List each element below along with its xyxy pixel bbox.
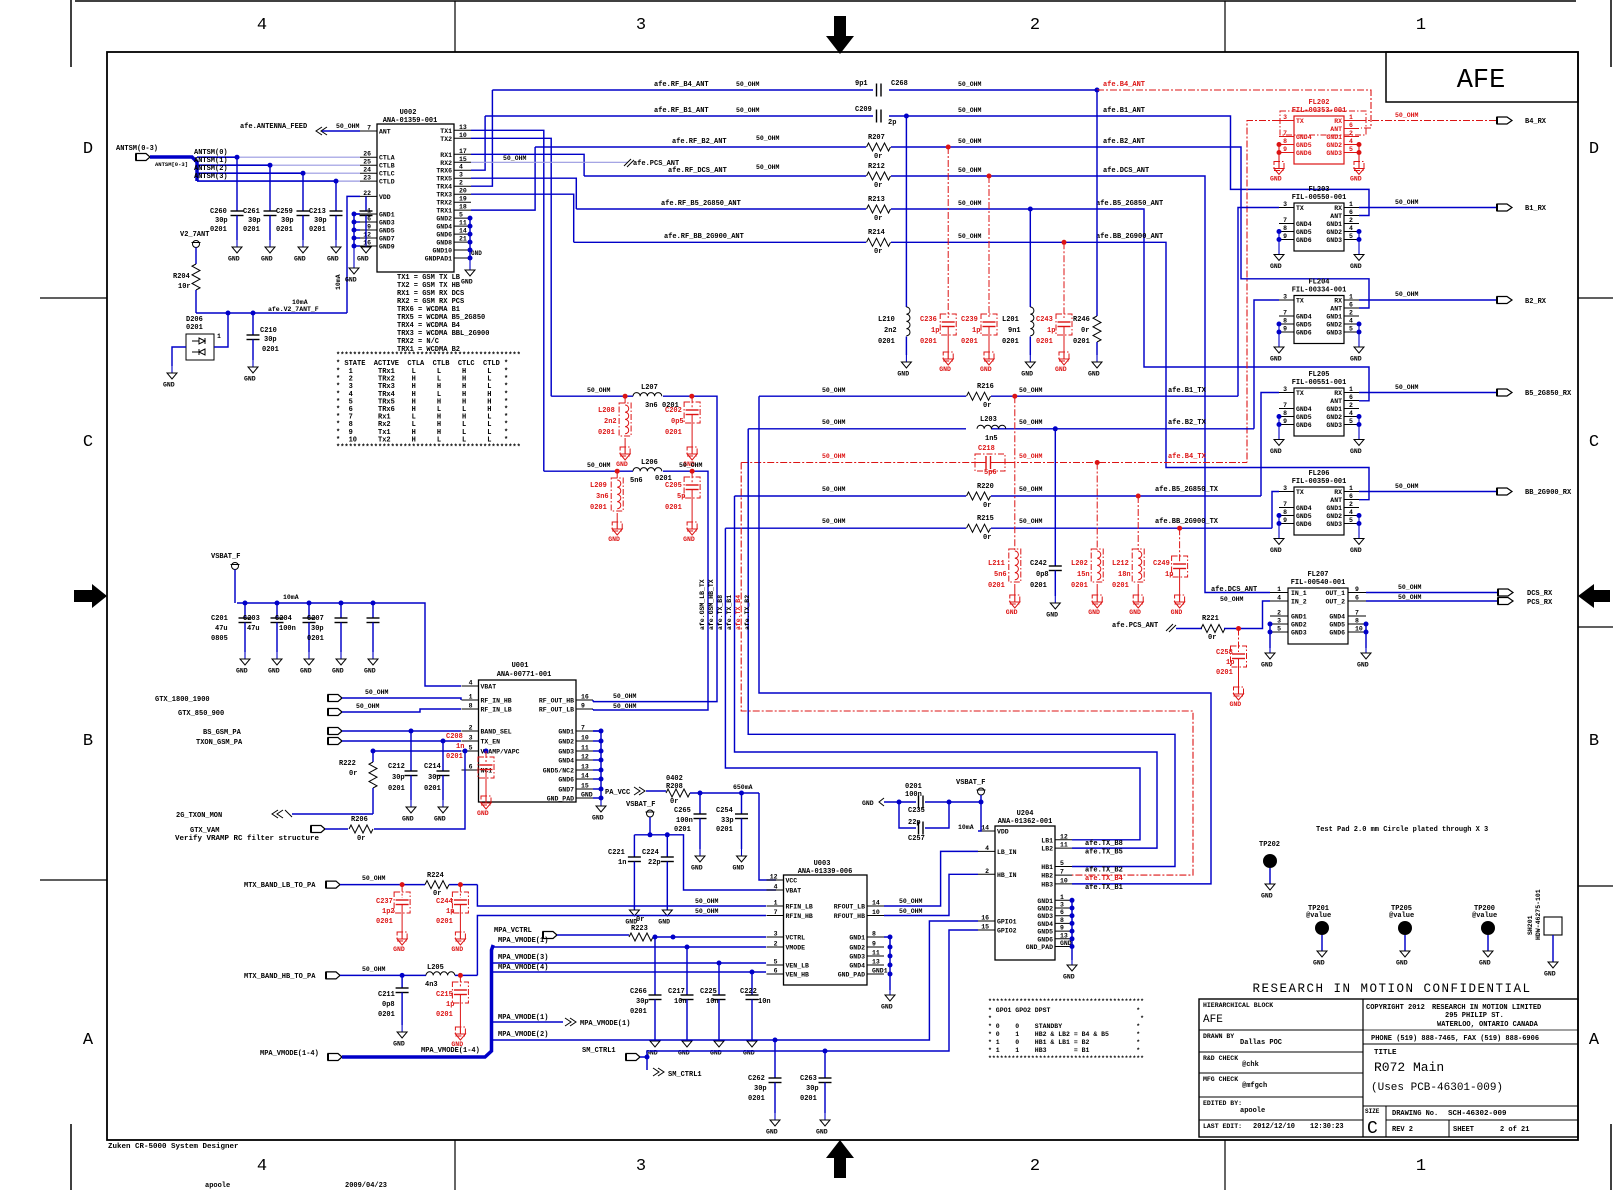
wire TRX5 to B5 row (471, 178, 576, 209)
svg-text:22p: 22p (648, 859, 661, 867)
svg-text:15: 15 (981, 924, 989, 931)
svg-text:CTLC: CTLC (379, 171, 395, 178)
svg-text:50_OHM: 50_OHM (1220, 596, 1244, 603)
svg-text:4: 4 (774, 884, 778, 891)
svg-text:SIZE: SIZE (1365, 1108, 1380, 1115)
svg-text:GND6: GND6 (1296, 422, 1312, 429)
svg-text:3: 3 (1283, 114, 1287, 121)
capacitor C249 (1153, 528, 1188, 616)
svg-text:0201: 0201 (800, 1095, 817, 1103)
svg-text:30p: 30p (314, 217, 327, 225)
svg-text:ANT: ANT (1330, 497, 1342, 504)
svg-text:******************************: ****************************************… (336, 444, 521, 452)
svg-text:1: 1 (1416, 1157, 1426, 1176)
svg-text:SM_CTRL1: SM_CTRL1 (668, 1071, 702, 1079)
svg-text:0201: 0201 (920, 338, 937, 346)
wire ANTSM(3) (194, 173, 360, 184)
svg-text:8: 8 (1283, 318, 1287, 325)
svg-text:ANTSM(0): ANTSM(0) (194, 149, 228, 157)
svg-text:L210: L210 (878, 316, 895, 324)
svg-text:3: 3 (774, 931, 778, 938)
FL204 grounds (1270, 322, 1364, 363)
capacitor C224 (642, 835, 674, 926)
svg-text:RESEARCH IN MOTION CONFIDENTIA: RESEARCH IN MOTION CONFIDENTIAL (1252, 982, 1531, 996)
svg-text:FIL-00359-001: FIL-00359-001 (1292, 478, 1347, 486)
svg-text:GND: GND (393, 1041, 405, 1048)
inductor L206 (630, 459, 672, 485)
svg-text:OUT_2: OUT_2 (1325, 599, 1345, 606)
svg-text:afe.GSM_LB_TX: afe.GSM_LB_TX (699, 579, 706, 630)
wire afe.B2_TX row (748, 419, 1254, 431)
svg-text:GND4: GND4 (558, 758, 574, 765)
svg-text:ANA-01362-001: ANA-01362-001 (998, 818, 1053, 826)
svg-text:30p: 30p (281, 217, 294, 225)
svg-text:5: 5 (1349, 517, 1353, 524)
svg-text:BAND_SEL: BAND_SEL (481, 729, 512, 736)
inductor L209 (590, 471, 623, 543)
terminal BS_GSM_PA (203, 728, 461, 738)
svg-text:20: 20 (459, 188, 467, 195)
svg-text:C217: C217 (668, 988, 685, 996)
svg-text:13: 13 (581, 764, 589, 771)
inductor L211 (988, 396, 1021, 616)
svg-text:C: C (83, 433, 93, 452)
svg-text:TXON_GSM_PA: TXON_GSM_PA (196, 739, 243, 747)
svg-text:5p6: 5p6 (984, 469, 997, 477)
svg-text:R214: R214 (868, 229, 885, 237)
svg-text:2 of 21: 2 of 21 (1500, 1126, 1529, 1134)
inductor L205 (425, 964, 477, 989)
svg-text:afe.RF_B1_ANT: afe.RF_B1_ANT (654, 107, 709, 115)
svg-text:L208: L208 (598, 407, 615, 415)
svg-text:VEN_LB: VEN_LB (786, 963, 810, 970)
svg-text:2G_TXON_MON: 2G_TXON_MON (176, 812, 222, 820)
svg-text:RX1: RX1 (440, 152, 452, 159)
wire ANTSM(0) (194, 149, 360, 160)
svg-text:C258: C258 (1216, 649, 1233, 657)
svg-text:3n6: 3n6 (596, 493, 609, 501)
svg-text:R221: R221 (1202, 615, 1219, 623)
svg-text:0201: 0201 (905, 783, 922, 791)
svg-text:9: 9 (1283, 418, 1287, 425)
svg-text:GND4: GND4 (1296, 221, 1312, 228)
svg-text:C236: C236 (920, 316, 937, 324)
svg-text:GND7: GND7 (558, 787, 574, 794)
svg-text:ANTSM(3): ANTSM(3) (194, 173, 228, 181)
svg-text:@mfgch: @mfgch (1242, 1082, 1267, 1090)
svg-text:10: 10 (872, 909, 880, 916)
svg-text:GND: GND (1129, 609, 1141, 616)
svg-text:0201: 0201 (436, 918, 453, 926)
inductor L208 (598, 396, 631, 468)
svg-text:GND: GND (434, 816, 446, 823)
svg-text:50_OHM: 50_OHM (958, 200, 982, 207)
svg-text:TRX4 = WCDMA B4: TRX4 = WCDMA B4 (397, 322, 460, 330)
svg-text:2012/12/10: 2012/12/10 (1253, 1123, 1295, 1131)
svg-text:0805: 0805 (211, 635, 228, 643)
svg-text:50_OHM: 50_OHM (822, 387, 846, 394)
filter FL205 (1279, 371, 1359, 436)
svg-text:RF_OUT_HB: RF_OUT_HB (539, 698, 574, 705)
svg-text:0201: 0201 (378, 1011, 395, 1019)
svg-text:ANTSM[0-3]: ANTSM[0-3] (155, 161, 188, 168)
svg-text:GND3: GND3 (1291, 630, 1307, 637)
svg-text:DRAWN BY: DRAWN BY (1203, 1033, 1234, 1040)
svg-text:B: B (83, 732, 93, 751)
svg-text:VBAT: VBAT (481, 684, 497, 691)
svg-text:7: 7 (1060, 869, 1064, 876)
wire MPA_VMODE(3) (492, 954, 767, 966)
svg-text:B5_2G850_RX: B5_2G850_RX (1525, 390, 1572, 398)
svg-text:GND: GND (862, 800, 874, 807)
svg-text:8: 8 (1283, 509, 1287, 516)
svg-text:MPA_VMODE(1-4): MPA_VMODE(1-4) (421, 1047, 480, 1055)
svg-text:GND: GND (1479, 960, 1491, 967)
wire RFOUT_HB to U204 (884, 874, 978, 915)
svg-text:1: 1 (1349, 201, 1353, 208)
svg-text:C254: C254 (716, 807, 733, 815)
svg-text:3: 3 (1283, 294, 1287, 301)
svg-text:GND: GND (1046, 612, 1058, 619)
wire afe.B5_2G850_TX row (735, 486, 1262, 499)
svg-text:******************************: ****************************************… (336, 352, 521, 360)
svg-text:GND1: GND1 (1326, 505, 1342, 512)
svg-text:GND2: GND2 (1326, 142, 1342, 149)
svg-text:9: 9 (1283, 326, 1287, 333)
wire RF_OUT_HB (593, 693, 637, 702)
svg-text:GND: GND (268, 668, 280, 675)
svg-text:GND: GND (939, 366, 951, 373)
svg-text:VBAT: VBAT (786, 888, 802, 895)
svg-text:100n: 100n (676, 817, 693, 825)
svg-text:0201: 0201 (1030, 582, 1047, 590)
svg-text:50_OHM: 50_OHM (822, 518, 846, 525)
svg-text:50_OHM: 50_OHM (958, 233, 982, 240)
svg-text:0201: 0201 (665, 429, 682, 437)
svg-text:GND8: GND8 (436, 240, 452, 247)
svg-text:16: 16 (581, 694, 589, 701)
svg-text:Dallas POC: Dallas POC (1240, 1039, 1282, 1047)
svg-text:1: 1 (1349, 485, 1353, 492)
svg-text:FL206: FL206 (1308, 470, 1329, 478)
FL202 highlight box (1280, 111, 1366, 135)
svg-text:GND2: GND2 (1326, 322, 1342, 329)
svg-text:0r: 0r (874, 182, 882, 190)
capacitor C261 (243, 165, 277, 262)
svg-text:GPIO2: GPIO2 (997, 928, 1017, 935)
svg-text:0201: 0201 (961, 338, 978, 346)
svg-text:13: 13 (459, 124, 467, 131)
svg-text:R222: R222 (339, 760, 356, 768)
svg-text:1p: 1p (1165, 571, 1173, 579)
svg-text:RFOUT_LB: RFOUT_LB (834, 904, 865, 911)
svg-text:0201: 0201 (262, 346, 279, 354)
svg-text:@chk: @chk (1242, 1061, 1259, 1069)
svg-text:50_OHM: 50_OHM (503, 155, 527, 162)
svg-text:18: 18 (459, 204, 467, 211)
svg-text:0201: 0201 (186, 324, 203, 332)
svg-text:50_OHM: 50_OHM (1395, 199, 1419, 206)
svg-text:R212: R212 (868, 163, 885, 171)
svg-text:0r: 0r (1081, 327, 1089, 335)
svg-text:4: 4 (469, 680, 473, 687)
svg-text:0201: 0201 (1216, 669, 1233, 677)
svg-text:TRX5 = WCDMA B5_2G850: TRX5 = WCDMA B5_2G850 (397, 314, 485, 322)
svg-text:0r: 0r (874, 215, 882, 223)
svg-text:30p: 30p (428, 774, 441, 782)
svg-text:GND3: GND3 (1326, 422, 1342, 429)
resistor R208 (666, 775, 759, 806)
svg-text:C208: C208 (446, 733, 463, 741)
svg-text:C201: C201 (211, 615, 228, 623)
svg-text:50_OHM: 50_OHM (899, 908, 923, 915)
title block (1199, 982, 1578, 1139)
inductor L202 (1071, 463, 1103, 617)
resistor R223 (629, 916, 766, 941)
svg-text:MPA_VMODE(3): MPA_VMODE(3) (498, 954, 548, 962)
svg-text:HDW-46275-101: HDW-46275-101 (1535, 889, 1542, 940)
svg-text:afe.DCS_ANT: afe.DCS_ANT (1103, 167, 1149, 175)
svg-text:D: D (83, 140, 93, 159)
svg-text:50_OHM: 50_OHM (613, 703, 637, 710)
svg-text:L202: L202 (1071, 560, 1088, 568)
svg-text:COPYRIGHT 2012: COPYRIGHT 2012 (1366, 1004, 1425, 1012)
svg-text:IN_2: IN_2 (1291, 599, 1307, 606)
capacitor C263 (800, 1051, 832, 1136)
svg-text:0201: 0201 (1071, 582, 1088, 590)
svg-text:HB_IN: HB_IN (997, 872, 1017, 879)
svg-text:TRX2 = N/C: TRX2 = N/C (397, 338, 439, 346)
U002 pin function notes (397, 274, 489, 354)
svg-text:* 0 1 HB2 & LB2 = B4 & B: * 0 1 HB2 & LB2 = B4 & B5 * (988, 1031, 1140, 1038)
inductor L203 (977, 416, 1006, 443)
svg-text:GND1: GND1 (872, 968, 888, 975)
capacitor C204 (275, 603, 316, 675)
svg-text:GND: GND (897, 371, 909, 378)
svg-text:C205: C205 (665, 482, 682, 490)
capacitor C202 (665, 396, 700, 468)
svg-text:L203: L203 (980, 416, 997, 424)
svg-text:4: 4 (1349, 509, 1353, 516)
svg-text:50_OHM: 50_OHM (822, 419, 846, 426)
svg-text:R207: R207 (868, 134, 885, 142)
svg-text:C266: C266 (630, 988, 647, 996)
svg-text:C218: C218 (978, 445, 995, 453)
svg-text:2n2: 2n2 (604, 418, 617, 426)
capacitor C225 (700, 963, 726, 1057)
svg-text:295 PHILIP ST.: 295 PHILIP ST. (1445, 1012, 1504, 1020)
svg-text:B2_RX: B2_RX (1525, 298, 1547, 306)
svg-text:afe.TX_B1: afe.TX_B1 (1085, 884, 1123, 892)
svg-text:GND: GND (1063, 974, 1075, 981)
svg-text:afe.RF_B2_ANT: afe.RF_B2_ANT (672, 138, 727, 146)
svg-text:LB_IN: LB_IN (997, 849, 1017, 856)
svg-text:2: 2 (985, 868, 989, 875)
svg-text:DRAWING No.: DRAWING No. (1392, 1110, 1438, 1118)
wire MPA_VMODE(4) (492, 964, 767, 975)
svg-text:21: 21 (459, 236, 467, 243)
svg-text:0r: 0r (670, 798, 678, 806)
svg-text:C237: C237 (376, 898, 393, 906)
svg-text:afe.TX_B8: afe.TX_B8 (717, 595, 724, 630)
svg-text:0p8: 0p8 (382, 1001, 395, 1009)
svg-text:GND: GND (1270, 263, 1282, 270)
svg-text:MPA_VMODE(2): MPA_VMODE(2) (498, 1031, 548, 1039)
svg-text:50_OHM: 50_OHM (1019, 387, 1043, 394)
svg-text:0r: 0r (1208, 634, 1216, 642)
svg-text:10mA: 10mA (958, 824, 974, 831)
svg-text:TRX4: TRX4 (436, 184, 452, 191)
svg-text:afe.DCS_ANT: afe.DCS_ANT (1211, 586, 1257, 594)
svg-text:C207: C207 (307, 615, 324, 623)
svg-text:50_OHM: 50_OHM (736, 107, 760, 114)
svg-text:GND2: GND2 (558, 739, 574, 746)
svg-text:* STATE ACTIVE CTLA CTLB C: * STATE ACTIVE CTLA CTLB CTLC CTLD * (336, 360, 508, 368)
testpad TP201 (1306, 905, 1331, 967)
svg-text:C: C (1367, 1119, 1378, 1139)
svg-text:afe.RF_DCS_ANT: afe.RF_DCS_ANT (668, 167, 727, 175)
wire afe.B4_ANT red (1097, 81, 1371, 128)
svg-text:50_OHM: 50_OHM (736, 81, 760, 88)
svg-text:0r: 0r (349, 770, 357, 778)
svg-text:6: 6 (1349, 493, 1353, 500)
svg-text:50_OHM: 50_OHM (1395, 112, 1419, 119)
resistor R204 (173, 257, 200, 313)
svg-text:afe.PCS_ANT: afe.PCS_ANT (1112, 622, 1158, 630)
svg-text:GND2: GND2 (1326, 513, 1342, 520)
svg-text:C257: C257 (908, 835, 925, 843)
svg-text:50_OHM: 50_OHM (822, 453, 846, 460)
svg-text:GPIO1: GPIO1 (997, 919, 1017, 926)
svg-text:0201: 0201 (446, 753, 463, 761)
svg-text:GND2: GND2 (1291, 622, 1307, 629)
svg-text:Test Pad 2.0 mm Circle plated: Test Pad 2.0 mm Circle plated through X … (1316, 826, 1488, 834)
svg-text:30p: 30p (392, 774, 405, 782)
svg-text:8: 8 (1060, 917, 1064, 924)
svg-text:47u: 47u (215, 625, 228, 633)
svg-text:Zuken CR-5000 System Designer: Zuken CR-5000 System Designer (108, 1143, 239, 1151)
svg-text:C243: C243 (1036, 316, 1053, 324)
power VSBAT_F 2 (626, 801, 655, 835)
svg-text:RFIN_LB: RFIN_LB (786, 904, 813, 911)
svg-text:50_OHM: 50_OHM (679, 462, 703, 469)
svg-text:30p: 30p (754, 1085, 767, 1093)
svg-text:GND: GND (1261, 662, 1273, 669)
wire B5_2G850_RX (1359, 384, 1572, 398)
svg-text:afe.BB_2G900_TX: afe.BB_2G900_TX (1155, 518, 1219, 526)
svg-text:U003: U003 (814, 860, 831, 868)
svg-text:TRX3 = WCDMA BBL_2G900: TRX3 = WCDMA BBL_2G900 (397, 330, 489, 338)
svg-text:30p: 30p (215, 217, 228, 225)
svg-text:5p: 5p (677, 493, 685, 501)
svg-text:RX2: RX2 (440, 160, 452, 167)
svg-text:23: 23 (363, 175, 371, 182)
svg-text:TX2 = GSM TX HB: TX2 = GSM TX HB (397, 282, 461, 290)
inductor L210 (878, 116, 911, 378)
svg-text:TX1 = GSM TX LB: TX1 = GSM TX LB (397, 274, 461, 282)
svg-text:VDD: VDD (997, 829, 1009, 836)
svg-text:0201: 0201 (1002, 338, 1019, 346)
svg-text:50_OHM: 50_OHM (1019, 453, 1043, 460)
svg-text:MPA_VMODE(1): MPA_VMODE(1) (498, 937, 548, 945)
svg-text:C: C (1589, 433, 1599, 452)
svg-text:RFIN_HB: RFIN_HB (786, 913, 813, 920)
capacitor C-vdd (357, 196, 373, 262)
svg-text:GND: GND (1396, 960, 1408, 967)
svg-text:C202: C202 (665, 407, 682, 415)
svg-text:GND: GND (228, 256, 240, 263)
U002 right ground rail (461, 216, 475, 286)
GSM PA U001 (462, 662, 594, 803)
svg-text:3: 3 (1277, 618, 1281, 625)
svg-text:TRX6: TRX6 (436, 168, 452, 175)
wire B5_TX to FL205 (1261, 393, 1279, 497)
svg-text:2: 2 (1030, 16, 1040, 35)
capacitor C205 (665, 471, 700, 543)
svg-text:0p8: 0p8 (1036, 571, 1049, 579)
svg-text:4: 4 (1349, 225, 1353, 232)
svg-text:afe.B1_TX: afe.B1_TX (1168, 387, 1207, 395)
svg-text:50_OHM: 50_OHM (756, 135, 780, 142)
svg-text:2: 2 (469, 725, 473, 732)
wire TRX3 to BB row (471, 194, 574, 242)
svg-text:GND: GND (766, 1129, 778, 1136)
svg-text:GND: GND (1313, 960, 1325, 967)
svg-text:GND4: GND4 (1296, 505, 1312, 512)
svg-text:1: 1 (1349, 386, 1353, 393)
svg-text:GND: GND (616, 461, 628, 468)
svg-text:GND5: GND5 (1296, 513, 1312, 520)
svg-text:TRX5: TRX5 (436, 176, 452, 183)
svg-text:C203: C203 (243, 615, 260, 623)
wire afe.V2_7ANT_F (196, 299, 347, 316)
svg-text:HB2: HB2 (1041, 873, 1053, 880)
svg-text:GND3: GND3 (558, 749, 574, 756)
testpad TP205 (1389, 905, 1414, 967)
capacitor C266 (630, 935, 662, 1057)
svg-text:L209: L209 (590, 482, 607, 490)
svg-text:GND1: GND1 (1326, 314, 1342, 321)
svg-text:GND: GND (294, 256, 306, 263)
svg-text:50_OHM: 50_OHM (356, 703, 380, 710)
GPO state table (988, 998, 1144, 1062)
svg-text:GND3: GND3 (1326, 521, 1342, 528)
svg-text:B: B (1589, 732, 1599, 751)
svg-text:GND: GND (1270, 547, 1282, 554)
svg-text:*: * * (988, 1015, 1144, 1022)
capacitor C244 (436, 885, 468, 953)
svg-text:GND6: GND6 (558, 777, 574, 784)
svg-text:C263: C263 (800, 1075, 817, 1083)
svg-text:RFOUT_HB: RFOUT_HB (834, 913, 865, 920)
svg-text:5: 5 (1349, 418, 1353, 425)
svg-text:afe.GSM_HB_TX: afe.GSM_HB_TX (708, 579, 715, 630)
wire afe.RF_BB_2G900_ANT (574, 233, 1369, 500)
capacitor C239 (961, 176, 997, 373)
svg-text:C260: C260 (210, 208, 227, 216)
svg-text:2: 2 (1349, 402, 1353, 409)
svg-text:C242: C242 (1030, 560, 1047, 568)
svg-text:0201: 0201 (307, 635, 324, 643)
svg-text:2: 2 (774, 941, 778, 948)
svg-text:1: 1 (1416, 16, 1426, 35)
svg-text:10: 10 (1060, 877, 1068, 884)
svg-text:GND: GND (461, 279, 473, 286)
svg-text:GND1: GND1 (1326, 221, 1342, 228)
capacitor C213 (309, 181, 343, 262)
svg-text:FL203: FL203 (1308, 186, 1329, 194)
svg-text:15n: 15n (1077, 571, 1090, 579)
